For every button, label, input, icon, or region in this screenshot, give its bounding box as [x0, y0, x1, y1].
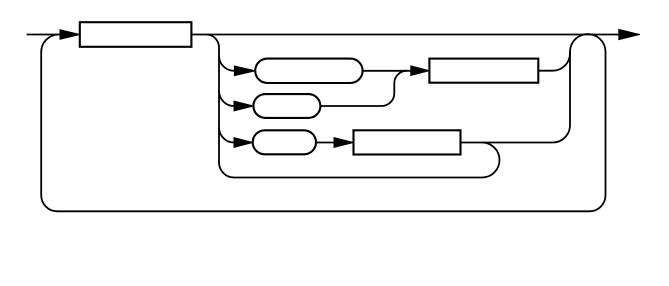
arrowhead into pill P3: [234, 138, 253, 148]
box B3 (lower rectangle): [354, 130, 461, 154]
pill P1 (first rounded box): [255, 59, 362, 83]
wire: P1 exit to arrow of box B2: [363, 70, 412, 72]
wire: branch arc to pill P1: [219, 56, 234, 71]
arrowhead into box B2: [411, 66, 430, 76]
arrowhead into box B3: [334, 138, 354, 148]
wire: P3 exit to arrow of box B3: [316, 142, 335, 144]
wire: branch arc to pill P3: [219, 127, 234, 142]
pill P3 (third rounded box): [253, 130, 316, 154]
wire: branch descent and inner repeat loop: [206, 35, 499, 178]
wire: B2 exit curving up into riser: [538, 52, 570, 71]
wire: entry line from left: [27, 34, 62, 36]
box B1 (top-left rectangle): [80, 22, 192, 47]
wire: B3 exit, riser, hump over main line, outer return loop: [41, 34, 605, 211]
pill P2 (second rounded box): [253, 94, 320, 118]
box B2 (upper-right rectangle): [429, 59, 538, 83]
arrowhead into pill P2: [234, 101, 253, 111]
arrowhead into pill P1: [234, 66, 255, 76]
wire: P2 exit S-curve merging up into B2 entry: [320, 71, 407, 106]
arrowhead exit at right: [619, 29, 640, 39]
wire: main line from B1 to exit: [191, 34, 622, 36]
arrowhead into box B1: [60, 30, 80, 40]
wire: branch arc to pill P2: [219, 91, 234, 106]
